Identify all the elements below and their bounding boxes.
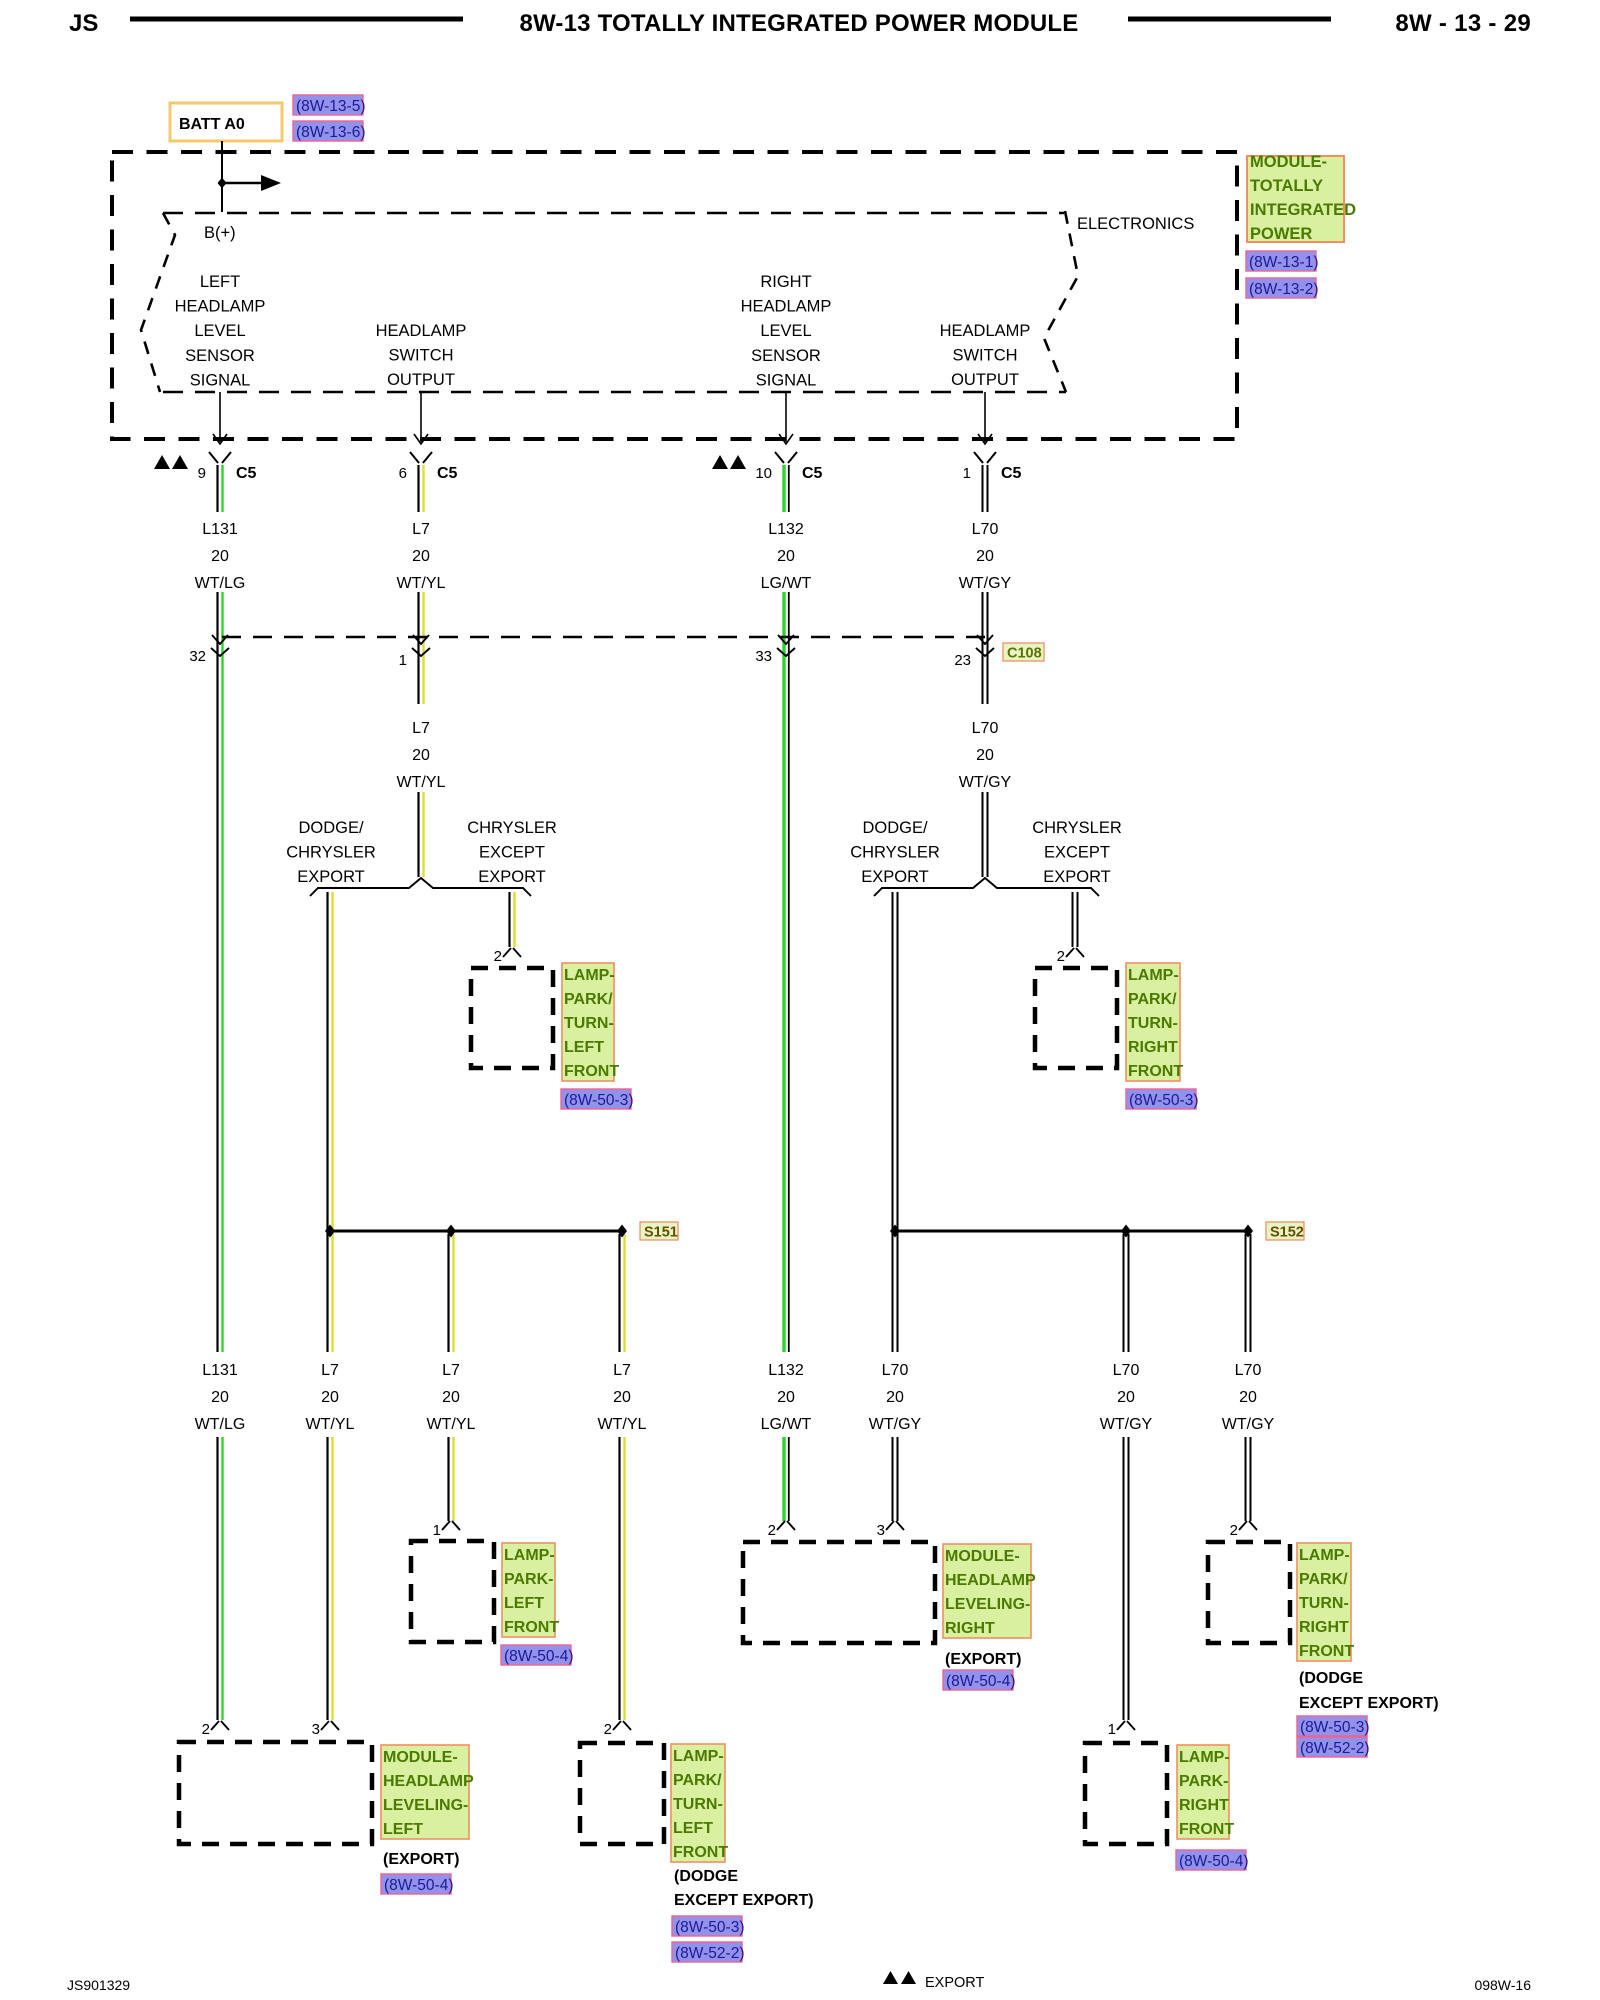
svg-text:HEADLAMP: HEADLAMP — [741, 298, 832, 316]
svg-text:(EXPORT): (EXPORT) — [383, 1851, 459, 1868]
svg-text:BATT A0: BATT A0 — [179, 116, 245, 133]
svg-text:20: 20 — [412, 548, 430, 565]
svg-text:(8W-52-2): (8W-52-2) — [675, 1945, 744, 1962]
svg-text:LAMP-: LAMP- — [1179, 1749, 1230, 1766]
svg-text:OUTPUT: OUTPUT — [387, 371, 455, 389]
svg-text:WT/YL: WT/YL — [427, 1416, 476, 1433]
svg-text:L7: L7 — [321, 1362, 339, 1379]
svg-text:1: 1 — [399, 652, 407, 669]
svg-text:RIGHT: RIGHT — [945, 1620, 995, 1637]
svg-text:C108: C108 — [1007, 646, 1042, 662]
svg-text:(DODGE: (DODGE — [674, 1868, 738, 1885]
svg-text:20: 20 — [613, 1389, 631, 1406]
svg-text:PARK/: PARK/ — [673, 1772, 722, 1789]
svg-text:EXPORT: EXPORT — [478, 868, 546, 886]
svg-text:WT/YL: WT/YL — [397, 575, 446, 592]
svg-text:L131: L131 — [202, 1362, 238, 1379]
svg-text:LEVELING-: LEVELING- — [383, 1797, 468, 1814]
svg-text:EXCEPT: EXCEPT — [1044, 844, 1110, 862]
svg-text:L70: L70 — [972, 521, 999, 538]
svg-text:TURN-: TURN- — [1299, 1595, 1349, 1612]
svg-text:WT/YL: WT/YL — [598, 1416, 647, 1433]
svg-text:RIGHT: RIGHT — [1299, 1619, 1349, 1636]
svg-text:WT/GY: WT/GY — [1100, 1416, 1153, 1433]
svg-text:POWER: POWER — [1250, 225, 1312, 243]
svg-text:(8W-50-4): (8W-50-4) — [504, 1648, 573, 1665]
svg-text:WT/LG: WT/LG — [195, 1416, 246, 1433]
svg-text:C5: C5 — [437, 465, 458, 482]
svg-text:LEVELING-: LEVELING- — [945, 1596, 1030, 1613]
svg-text:LEFT: LEFT — [564, 1039, 604, 1056]
svg-text:LEFT: LEFT — [673, 1820, 713, 1837]
svg-text:TOTALLY: TOTALLY — [1250, 177, 1323, 195]
svg-text:C5: C5 — [1001, 465, 1022, 482]
svg-text:HEADLAMP: HEADLAMP — [945, 1572, 1036, 1589]
svg-text:3: 3 — [877, 1522, 885, 1539]
svg-text:MODULE-: MODULE- — [383, 1749, 458, 1766]
svg-text:FRONT: FRONT — [673, 1844, 728, 1861]
svg-text:LEFT: LEFT — [200, 273, 240, 291]
svg-text:20: 20 — [976, 747, 994, 764]
svg-text:LAMP-: LAMP- — [564, 967, 615, 984]
svg-text:SIGNAL: SIGNAL — [756, 371, 817, 389]
svg-text:FRONT: FRONT — [1128, 1063, 1183, 1080]
svg-text:2: 2 — [1230, 1522, 1238, 1539]
svg-text:LEVEL: LEVEL — [760, 322, 811, 340]
svg-text:EXPORT: EXPORT — [1043, 868, 1111, 886]
svg-text:DODGE/: DODGE/ — [298, 819, 364, 837]
svg-text:B(+): B(+) — [204, 224, 236, 242]
svg-text:2: 2 — [494, 948, 502, 965]
svg-text:RIGHT: RIGHT — [1128, 1039, 1178, 1056]
svg-text:WT/LG: WT/LG — [195, 575, 246, 592]
svg-text:TURN-: TURN- — [673, 1796, 723, 1813]
svg-text:WT/GY: WT/GY — [959, 575, 1012, 592]
svg-text:(8W-50-3): (8W-50-3) — [564, 1092, 633, 1109]
svg-text:(8W-50-3): (8W-50-3) — [1300, 1719, 1369, 1736]
svg-text:DODGE/: DODGE/ — [862, 819, 928, 837]
svg-text:20: 20 — [321, 1389, 339, 1406]
svg-text:(EXPORT): (EXPORT) — [945, 1651, 1021, 1668]
svg-text:SENSOR: SENSOR — [185, 347, 255, 365]
svg-text:LAMP-: LAMP- — [504, 1547, 555, 1564]
svg-text:L7: L7 — [412, 521, 430, 538]
svg-text:SWITCH: SWITCH — [952, 347, 1017, 365]
svg-text:LAMP-: LAMP- — [1299, 1547, 1350, 1564]
svg-text:L70: L70 — [1235, 1362, 1262, 1379]
svg-text:(8W-13-6): (8W-13-6) — [296, 124, 365, 141]
svg-text:LG/WT: LG/WT — [761, 1416, 812, 1433]
svg-text:MODULE-: MODULE- — [945, 1548, 1020, 1565]
svg-text:WT/YL: WT/YL — [306, 1416, 355, 1433]
svg-text:LEVEL: LEVEL — [194, 322, 245, 340]
svg-text:2: 2 — [202, 1721, 210, 1738]
svg-text:6: 6 — [399, 465, 407, 482]
svg-text:LG/WT: LG/WT — [761, 575, 812, 592]
svg-text:(8W-50-3): (8W-50-3) — [675, 1919, 744, 1936]
svg-text:L131: L131 — [202, 521, 238, 538]
svg-text:20: 20 — [777, 1389, 795, 1406]
svg-text:9: 9 — [198, 465, 206, 482]
svg-text:S151: S151 — [644, 1225, 678, 1241]
svg-text:1: 1 — [963, 465, 971, 482]
svg-text:8W-13 TOTALLY INTEGRATED POWER: 8W-13 TOTALLY INTEGRATED POWER MODULE — [520, 10, 1079, 37]
svg-text:WT/GY: WT/GY — [1222, 1416, 1275, 1433]
svg-text:HEADLAMP: HEADLAMP — [940, 322, 1031, 340]
svg-text:(8W-50-3): (8W-50-3) — [1129, 1092, 1198, 1109]
svg-text:(8W-50-4): (8W-50-4) — [946, 1673, 1015, 1690]
svg-text:PARK/: PARK/ — [564, 991, 613, 1008]
svg-text:20: 20 — [777, 548, 795, 565]
svg-text:20: 20 — [886, 1389, 904, 1406]
svg-text:L132: L132 — [768, 521, 804, 538]
svg-text:HEADLAMP: HEADLAMP — [175, 298, 266, 316]
svg-text:LEFT: LEFT — [504, 1595, 544, 1612]
svg-text:CHRYSLER: CHRYSLER — [467, 819, 557, 837]
svg-text:2: 2 — [604, 1721, 612, 1738]
svg-text:(8W-13-2): (8W-13-2) — [1249, 281, 1318, 298]
svg-text:(8W-13-1): (8W-13-1) — [1249, 254, 1318, 271]
svg-text:20: 20 — [412, 747, 430, 764]
svg-text:FRONT: FRONT — [504, 1619, 559, 1636]
svg-text:1: 1 — [1108, 1721, 1116, 1738]
svg-text:PARK-: PARK- — [1179, 1773, 1228, 1790]
svg-text:TURN-: TURN- — [1128, 1015, 1178, 1032]
svg-text:CHRYSLER: CHRYSLER — [1032, 819, 1122, 837]
svg-text:WT/GY: WT/GY — [869, 1416, 922, 1433]
svg-text:PARK/: PARK/ — [1128, 991, 1177, 1008]
svg-text:EXPORT: EXPORT — [861, 868, 929, 886]
svg-text:SENSOR: SENSOR — [751, 347, 821, 365]
svg-text:JS: JS — [69, 10, 98, 37]
svg-text:INTEGRATED: INTEGRATED — [1250, 201, 1356, 219]
svg-text:32: 32 — [189, 648, 206, 665]
svg-text:CHRYSLER: CHRYSLER — [850, 844, 940, 862]
svg-text:C5: C5 — [236, 465, 257, 482]
svg-text:2: 2 — [1057, 948, 1065, 965]
svg-text:EXCEPT: EXCEPT — [479, 844, 545, 862]
svg-text:HEADLAMP: HEADLAMP — [376, 322, 467, 340]
svg-text:098W-16: 098W-16 — [1474, 1977, 1531, 1993]
svg-text:L70: L70 — [1113, 1362, 1140, 1379]
svg-text:FRONT: FRONT — [564, 1063, 619, 1080]
svg-text:WT/YL: WT/YL — [397, 774, 446, 791]
svg-text:1: 1 — [433, 1522, 441, 1539]
svg-text:ELECTRONICS: ELECTRONICS — [1077, 215, 1194, 233]
svg-text:L132: L132 — [768, 1362, 804, 1379]
svg-text:FRONT: FRONT — [1299, 1643, 1354, 1660]
svg-text:20: 20 — [211, 548, 229, 565]
svg-text:RIGHT: RIGHT — [760, 273, 811, 291]
svg-text:EXPORT: EXPORT — [925, 1975, 985, 1991]
svg-text:L70: L70 — [882, 1362, 909, 1379]
svg-text:TURN-: TURN- — [564, 1015, 614, 1032]
svg-text:LAMP-: LAMP- — [673, 1748, 724, 1765]
svg-text:EXPORT: EXPORT — [297, 868, 365, 886]
svg-text:L7: L7 — [613, 1362, 631, 1379]
svg-text:SIGNAL: SIGNAL — [190, 371, 251, 389]
svg-text:PARK-: PARK- — [504, 1571, 553, 1588]
svg-text:C5: C5 — [802, 465, 823, 482]
svg-text:(8W-13-5): (8W-13-5) — [296, 98, 365, 115]
svg-text:20: 20 — [1239, 1389, 1257, 1406]
svg-text:8W - 13 - 29: 8W - 13 - 29 — [1395, 10, 1531, 37]
svg-text:(8W-50-4): (8W-50-4) — [384, 1877, 453, 1894]
svg-text:23: 23 — [954, 652, 971, 669]
svg-text:20: 20 — [442, 1389, 460, 1406]
svg-text:(8W-50-4): (8W-50-4) — [1179, 1853, 1248, 1870]
svg-text:(8W-52-2): (8W-52-2) — [1300, 1740, 1369, 1757]
svg-text:L7: L7 — [442, 1362, 460, 1379]
svg-text:EXCEPT EXPORT): EXCEPT EXPORT) — [674, 1892, 814, 1909]
svg-text:20: 20 — [211, 1389, 229, 1406]
svg-text:20: 20 — [976, 548, 994, 565]
svg-text:JS901329: JS901329 — [67, 1977, 130, 1993]
svg-text:EXCEPT EXPORT): EXCEPT EXPORT) — [1299, 1695, 1439, 1712]
svg-text:S152: S152 — [1270, 1225, 1304, 1241]
svg-text:L70: L70 — [972, 720, 999, 737]
svg-text:FRONT: FRONT — [1179, 1821, 1234, 1838]
svg-text:LEFT: LEFT — [383, 1821, 423, 1838]
svg-text:(DODGE: (DODGE — [1299, 1670, 1363, 1687]
svg-text:L7: L7 — [412, 720, 430, 737]
svg-text:10: 10 — [755, 465, 772, 482]
svg-text:HEADLAMP: HEADLAMP — [383, 1773, 474, 1790]
svg-text:20: 20 — [1117, 1389, 1135, 1406]
svg-text:PARK/: PARK/ — [1299, 1571, 1348, 1588]
svg-text:33: 33 — [755, 648, 772, 665]
svg-text:3: 3 — [312, 1721, 320, 1738]
svg-text:CHRYSLER: CHRYSLER — [286, 844, 376, 862]
svg-text:WT/GY: WT/GY — [959, 774, 1012, 791]
svg-text:MODULE-: MODULE- — [1250, 153, 1327, 171]
svg-text:RIGHT: RIGHT — [1179, 1797, 1229, 1814]
svg-text:LAMP-: LAMP- — [1128, 967, 1179, 984]
svg-text:OUTPUT: OUTPUT — [951, 371, 1019, 389]
svg-text:2: 2 — [768, 1522, 776, 1539]
svg-text:SWITCH: SWITCH — [388, 347, 453, 365]
